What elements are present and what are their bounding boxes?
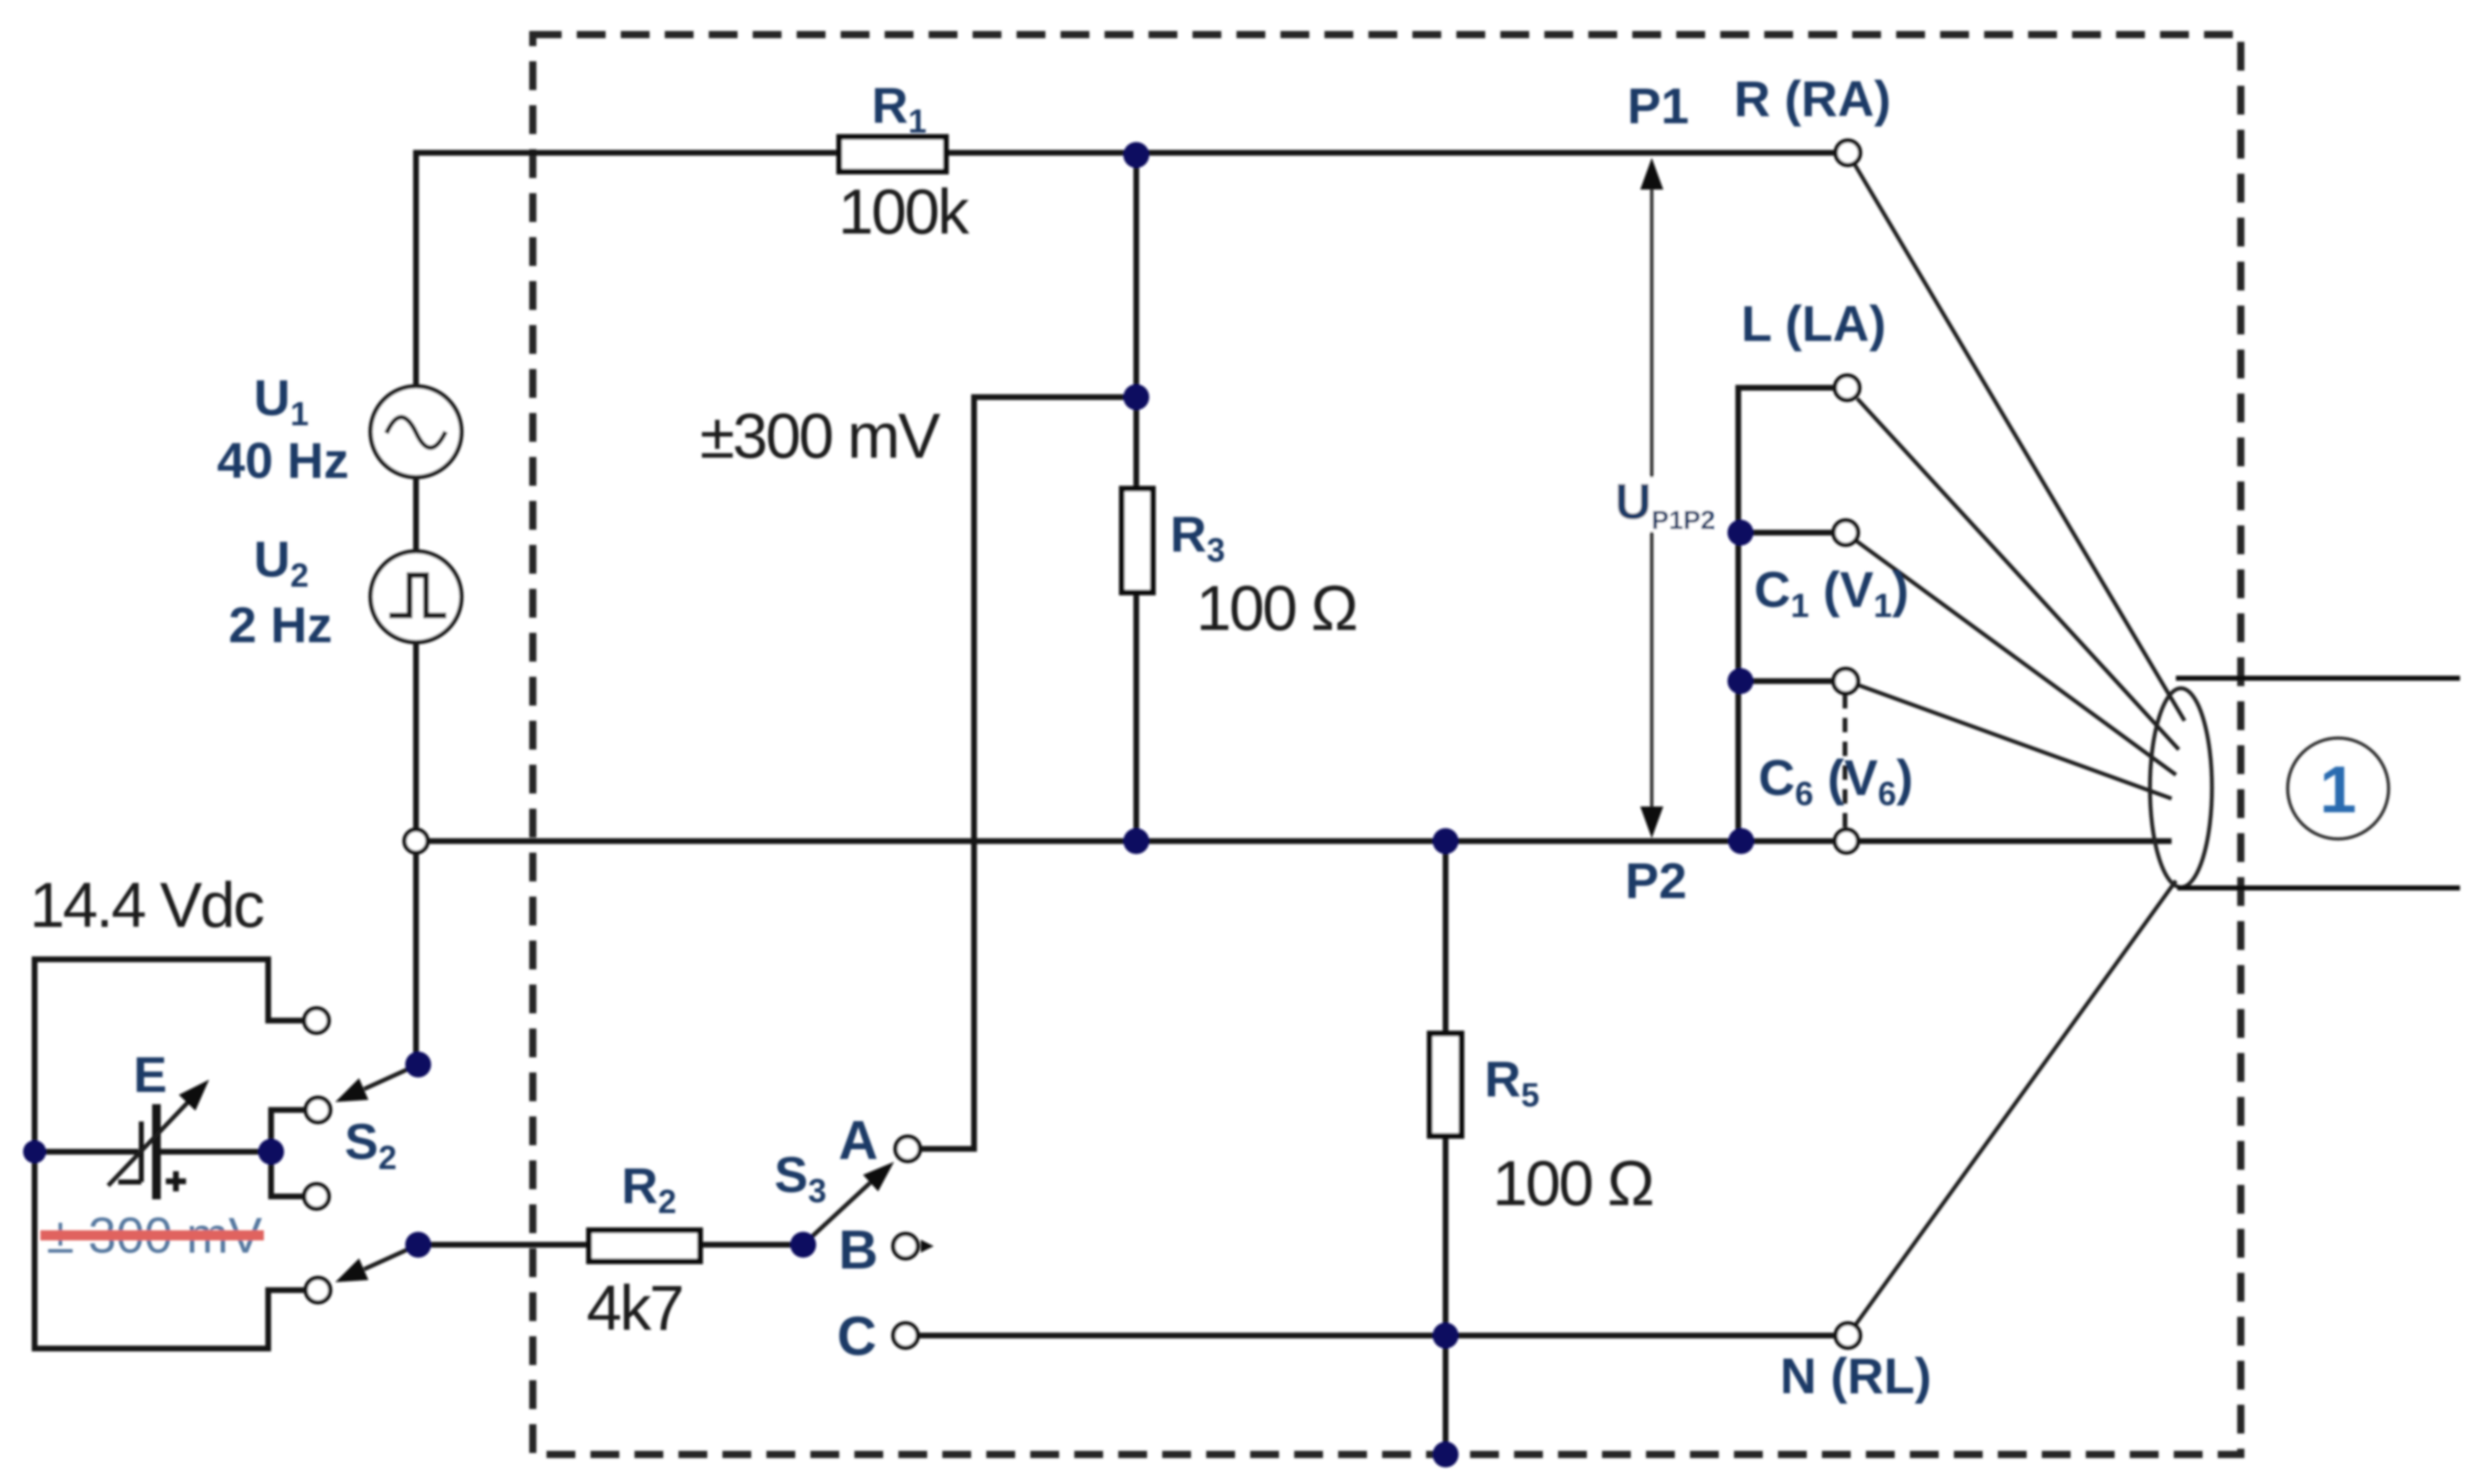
S3 contact C: [893, 1323, 918, 1348]
svg-text:R (RA): R (RA): [1734, 71, 1891, 127]
battery E plates: [139, 1121, 144, 1182]
resistor R1 body: [839, 137, 946, 172]
red strike line: [40, 1230, 264, 1240]
wire bottom rail (P2 net): [416, 838, 2172, 844]
terminal R (RA): [1836, 141, 1860, 165]
svg-text:L (LA): L (LA): [1741, 296, 1886, 352]
svg-text:40 Hz: 40 Hz: [217, 432, 349, 489]
wire left source branch: [413, 150, 419, 1065]
switch S3 arm: [803, 1183, 870, 1245]
svg-text:100 Ω: 100 Ω: [1492, 1147, 1652, 1219]
S2 contact terminals: [304, 1008, 329, 1033]
terminal C1 (V1): [1833, 520, 1858, 545]
svg-text:100k: 100k: [838, 176, 970, 247]
resistor R2 body: [589, 1230, 700, 1261]
svg-text:C: C: [837, 1306, 877, 1367]
lead L(LA) to cable: [1857, 399, 2179, 750]
switch S2 upper arm: [364, 1065, 418, 1089]
14.4 Vdc source box outline: [35, 959, 306, 1349]
terminal L (LA): [1835, 376, 1859, 400]
lead C6(V6) to cable: [1857, 685, 2172, 799]
connector label circle 1: [2288, 738, 2389, 839]
battery adjustable arrow: [108, 1103, 187, 1186]
svg-text:N (RL): N (RL): [1780, 1348, 1931, 1404]
battery plus sign: [166, 1178, 186, 1184]
wire S2 middle contact stubs to battery: [271, 1110, 306, 1196]
svg-text:E: E: [133, 1047, 167, 1103]
svg-text:100 Ω: 100 Ω: [1196, 572, 1356, 644]
svg-text:B: B: [838, 1219, 878, 1281]
wire 300mV link to contact A: [921, 397, 1136, 1149]
cable output line top: [2176, 676, 2460, 681]
wire battery left: [35, 1149, 138, 1155]
S3 contact B: [893, 1234, 918, 1258]
dashed link C6 to P2 rail: [1843, 694, 1848, 827]
svg-text:A: A: [838, 1110, 878, 1171]
wire R3 branch: [1133, 153, 1139, 841]
lead R(RA) to cable: [1855, 165, 2185, 721]
resistor R5 body: [1430, 1034, 1461, 1136]
lead C1(V1) to cable: [1856, 541, 2176, 775]
terminal C6 on P2 rail: [1835, 830, 1858, 853]
wire L terminal stub: [1738, 388, 1835, 841]
resistor R3 body: [1122, 489, 1153, 592]
terminal on P2 rail left end: [404, 830, 428, 853]
terminal N (RL): [1836, 1323, 1860, 1348]
wire C6 terminal stub: [1740, 678, 1833, 684]
svg-text:4k7: 4k7: [587, 1272, 683, 1343]
cable output line bottom: [2177, 886, 2460, 891]
svg-text:P1: P1: [1627, 78, 1689, 134]
wire C-to-N net: [919, 1333, 1836, 1338]
svg-text:P2: P2: [1625, 853, 1687, 909]
lead N(RL) to cable: [1855, 881, 2176, 1325]
UP1P2 measure arrow: [1650, 180, 1654, 814]
cable gather ellipse: [2150, 688, 2212, 887]
svg-text:2 Hz: 2 Hz: [229, 597, 332, 653]
dashed enclosure box: [533, 35, 2241, 1454]
source U2 pulse generator: [371, 551, 461, 642]
S3 contact A: [895, 1137, 920, 1161]
svg-text:±300 mV: ±300 mV: [700, 400, 941, 471]
wire R5 branch: [1443, 841, 1448, 1454]
wire R2 net: [418, 1242, 803, 1248]
wire battery right: [159, 1149, 271, 1155]
svg-text:14.4 Vdc: 14.4 Vdc: [30, 869, 263, 941]
switch S2 lower arm: [364, 1245, 418, 1269]
svg-text:1: 1: [2319, 753, 2356, 827]
B contact tick: [921, 1240, 934, 1253]
junction dots: [1123, 142, 1149, 168]
wire top rail (R1 net): [416, 150, 1836, 156]
wire C1 terminal stub: [1740, 530, 1833, 536]
source U1 sine generator: [371, 386, 461, 477]
label UP1P2: [1610, 477, 1711, 532]
terminal C6 (V6): [1833, 669, 1858, 693]
